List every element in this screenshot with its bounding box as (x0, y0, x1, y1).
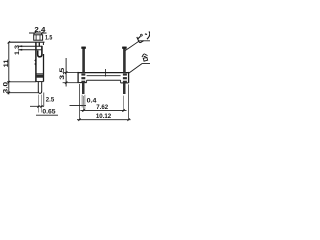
right bottom pin (123, 83, 126, 94)
tab inner right wall (39, 35, 41, 40)
extension at body bottom left (63, 82, 78, 84)
dimension line 2.4 (29, 32, 47, 34)
left top pin cap (81, 47, 86, 49)
svg-text:2.5: 2.5 (46, 96, 55, 103)
left block rung 3 (81, 81, 85, 83)
tick at y82 (8, 81, 10, 83)
right block rung 3 (123, 81, 127, 83)
left bottom pin (82, 83, 85, 94)
pin right edge (41, 82, 43, 92)
tick 3.5 bottom (65, 81, 68, 84)
tick 0.65 right (41, 105, 43, 108)
dimension line 7.62 (80, 109, 126, 111)
extension line at 82 (7, 81, 36, 83)
right view body right edge (128, 72, 130, 83)
right top pin cap (122, 47, 127, 49)
tick at y42.2 (8, 41, 10, 43)
pin extension line left (38, 95, 40, 113)
middle inner line (87, 75, 121, 77)
leader line pin label (125, 41, 150, 51)
center mark on body (105, 69, 107, 77)
katakana n (144, 31, 151, 39)
extension line pin right for 0.4 (84, 95, 86, 110)
katakana pi (137, 34, 145, 43)
body right stub top (42, 42, 44, 45)
extension line at 92.7 (7, 92, 38, 94)
tick 0.65 left (37, 105, 39, 108)
svg-text:0.4: 0.4 (87, 98, 97, 105)
tab outline (34, 35, 43, 40)
left block rung 1 (81, 74, 85, 76)
right block bottom (121, 82, 129, 84)
svg-text:1.3: 1.3 (14, 44, 21, 55)
main vertical dimension line (8, 42, 10, 94)
dimension line 1.3 lower (19, 49, 42, 51)
tick left on 2.4 line (34, 32, 36, 35)
tick 7.62 left (82, 109, 84, 112)
body top line (9, 41, 45, 43)
underline of 0.65 (36, 114, 58, 116)
dimension line 1.3 upper (19, 45, 43, 47)
extension at body top left (63, 71, 78, 73)
hook vertical connector (38, 43, 40, 47)
3.5 dimension line (65, 58, 67, 87)
extension line 10.12 left (79, 84, 81, 120)
right view body top line (78, 72, 129, 74)
dimension line 0.65 (30, 105, 44, 107)
svg-text:0.65: 0.65 (42, 108, 56, 115)
tick 3.5 top (65, 71, 68, 74)
extension line pin left for 0.4 (81, 95, 83, 108)
body bottom line (36, 81, 44, 83)
left block step (86, 80, 88, 82)
right top pin (123, 47, 126, 73)
right view body left edge (77, 72, 79, 83)
arrow 1.3 lower (19, 49, 23, 51)
barb lower on left wall (34, 62, 36, 65)
tick 7.62 right (122, 109, 124, 112)
leader line resin label (129, 64, 150, 73)
left top pin (82, 47, 85, 73)
pin extension line right (40, 95, 42, 113)
tick 10.12 left (78, 118, 80, 121)
extension line 10.12 right (128, 84, 130, 119)
extension line 7.62 left (82, 96, 84, 112)
body right wall (43, 54, 45, 82)
hook slot J (38, 46, 42, 57)
left block rung 2 (81, 77, 85, 79)
extension line right of pin (43, 93, 45, 107)
kanji gou (141, 53, 148, 61)
barb upper on left wall (34, 59, 36, 62)
svg-text:3.0: 3.0 (3, 81, 10, 93)
dark band below joint (36, 75, 43, 78)
pin rounded bottom (38, 91, 41, 93)
tab inner left wall (35, 35, 37, 40)
svg-text:11: 11 (3, 59, 10, 68)
right block step (120, 80, 122, 83)
tick 10.12 right (127, 118, 129, 121)
body left wall (35, 42, 37, 81)
svg-text:3.5: 3.5 (59, 67, 66, 79)
dimension line 0.4 (70, 104, 87, 106)
dimension line 10.12 (77, 119, 131, 121)
tick right on 2.4 line (41, 32, 43, 35)
tick at y92.7 (8, 92, 10, 94)
svg-text:10.12: 10.12 (96, 113, 112, 120)
right block rung 1 (123, 74, 127, 76)
arrow 1.3 upper (19, 45, 23, 47)
pin left edge (37, 82, 39, 92)
svg-text:7.62: 7.62 (96, 104, 108, 111)
middle bottom line (87, 79, 121, 81)
left block bottom (78, 82, 87, 84)
right block rung 2 (123, 77, 127, 79)
extension line 7.62 right (123, 96, 125, 112)
svg-text:1.5: 1.5 (45, 35, 53, 42)
joint line (36, 73, 44, 75)
